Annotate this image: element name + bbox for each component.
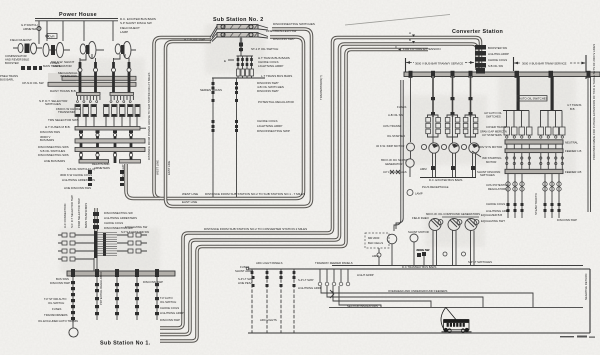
svg-text:DISCONNECTING SWITCHES: DISCONNECTING SWITCHES xyxy=(273,22,315,26)
svg-text:DISCONN SWP: DISCONN SWP xyxy=(143,280,163,284)
svg-text:DISCONNECTING SWS: DISCONNECTING SWS xyxy=(38,153,69,157)
svg-text:MAIN TRANSFMRS: MAIN TRANSFMRS xyxy=(84,203,88,228)
svg-text:S.P S.T GROUND SW: S.P S.T GROUND SW xyxy=(121,230,149,234)
svg-text:EQUALIZER B.B: EQUALIZER B.B xyxy=(481,213,502,217)
svg-text:3000 V BUS-BAR TRAMWY SERVICE: 3000 V BUS-BAR TRAMWY SERVICE xyxy=(415,61,463,65)
svg-text:DISCONN SWP: DISCONN SWP xyxy=(273,37,295,41)
svg-text:TRAMWAY FEEDER PANELS: TRAMWAY FEEDER PANELS xyxy=(315,261,353,265)
svg-text:OIL SWITCH: OIL SWITCH xyxy=(48,301,64,305)
svg-text:FIELD RHEO: FIELD RHEO xyxy=(412,216,430,220)
svg-text:REGULATORS: REGULATORS xyxy=(488,187,507,191)
svg-text:ST-1 P OIL SWITCH: ST-1 P OIL SWITCH xyxy=(251,47,278,51)
svg-text:600 K.W. OIL COMPOUND GENERATO: 600 K.W. OIL COMPOUND GENERATORS xyxy=(426,212,480,216)
svg-text:B.B: B.B xyxy=(570,107,575,111)
svg-text:EQUALIZING SW: EQUALIZING SW xyxy=(125,225,148,229)
svg-text:H.T FUSES M B.B.: H.T FUSES M B.B. xyxy=(45,125,71,129)
svg-text:S-P LT SWP: S-P LT SWP xyxy=(298,278,314,282)
svg-text:CHOKE COILS: CHOKE COILS xyxy=(104,221,123,225)
svg-text:CHOKE COILS: CHOKE COILS xyxy=(488,58,507,62)
svg-text:MAX RELAY: MAX RELAY xyxy=(121,164,125,180)
svg-text:LIGHTNING ARRP: LIGHTNING ARRP xyxy=(298,286,322,290)
svg-text:GENERATOR: GENERATOR xyxy=(385,162,402,166)
svg-text:Sub Station No 1.: Sub Station No 1. xyxy=(100,341,151,347)
svg-text:S.P SHUNT DISCH SW: S.P SHUNT DISCH SW xyxy=(120,21,152,25)
svg-text:EAST LINE: EAST LINE xyxy=(182,200,197,204)
svg-text:SWITCHES: SWITCHES xyxy=(45,102,61,106)
svg-text:LIGHTNG ARRP: LIGHTNG ARRP xyxy=(488,52,509,56)
svg-text:Converter Station: Converter Station xyxy=(452,29,503,35)
svg-text:FUSES: FUSES xyxy=(397,105,406,109)
svg-text:FIELD RHEOST: FIELD RHEOST xyxy=(10,38,32,42)
svg-text:COVER TRANS: COVER TRANS xyxy=(486,125,506,129)
svg-text:STEAM TRACTN: STEAM TRACTN xyxy=(534,193,538,215)
svg-text:D.C TRAMWAY BUS BARS: D.C TRAMWAY BUS BARS xyxy=(402,265,437,269)
svg-text:LIGHT ARRP: LIGHT ARRP xyxy=(357,273,374,277)
svg-text:TRN SELECTOR SWS: TRN SELECTOR SWS xyxy=(48,118,79,122)
svg-text:3-P STARTERS: 3-P STARTERS xyxy=(482,133,502,137)
svg-text:SHUNT MOTOR: SHUNT MOTOR xyxy=(408,230,429,234)
svg-text:WASH SW: WASH SW xyxy=(416,248,430,252)
svg-text:600V SYN MOTOR: 600V SYN MOTOR xyxy=(478,145,502,149)
svg-text:AMM: AMM xyxy=(420,167,427,171)
svg-text:SERIES TRANS: SERIES TRANS xyxy=(200,88,222,92)
svg-text:OVR: OVR xyxy=(49,35,55,39)
svg-text:BUS BARS: BUS BARS xyxy=(40,138,54,142)
svg-text:TRANSMISSION(?): TRANSMISSION(?) xyxy=(319,75,323,100)
svg-text:POTENTIAL REGULATOR: POTENTIAL REGULATOR xyxy=(99,272,103,305)
svg-text:BUS BARL: BUS BARL xyxy=(0,78,14,82)
svg-text:DAISY TRANS B.B.: DAISY TRANS B.B. xyxy=(50,89,77,93)
svg-text:DISCONN SWP: DISCONN SWP xyxy=(557,218,577,222)
svg-text:3000 K.W CHOKE COILS: 3000 K.W CHOKE COILS xyxy=(60,173,92,177)
svg-text:S.B OIL SW: S.B OIL SW xyxy=(488,64,503,68)
svg-text:LIGHTNING ARRP: LIGHTNING ARRP xyxy=(160,311,184,315)
svg-text:DISCONNECTING SWP: DISCONNECTING SWP xyxy=(257,129,290,133)
svg-text:FOR FUTURE EXTENSION: FOR FUTURE EXTENSION xyxy=(403,47,441,51)
svg-text:LIGHTNING ARRESTERS: LIGHTNING ARRESTERS xyxy=(104,216,137,220)
svg-text:EAST LINE: EAST LINE xyxy=(167,161,171,175)
svg-text:S.P. D.T SELECTOR SWP: S.P. D.T SELECTOR SWP xyxy=(70,195,74,228)
svg-text:LINE BUS BARS: LINE BUS BARS xyxy=(44,159,65,163)
svg-text:PRIM SELECTOR SWP: PRIM SELECTOR SWP xyxy=(77,198,81,228)
svg-text:LAMP: LAMP xyxy=(415,192,423,196)
svg-text:3-PH TRANSF: 3-PH TRANSF xyxy=(383,124,402,128)
svg-text:SHUNT ARRP: SHUNT ARRP xyxy=(235,269,253,273)
svg-text:D.C. EXCITER BUS BARS: D.C. EXCITER BUS BARS xyxy=(429,178,463,182)
svg-text:AMMETER: AMMETER xyxy=(23,27,37,31)
svg-text:ARC LIGHTS: ARC LIGHTS xyxy=(260,318,277,322)
svg-text:FEEDER 1.B: FEEDER 1.B xyxy=(565,149,581,153)
svg-text:DISCONN SWP: DISCONN SWP xyxy=(50,281,70,285)
svg-text:SECTION INSULATORS: SECTION INSULATORS xyxy=(347,304,378,308)
svg-text:CHOKE COILS: CHOKE COILS xyxy=(257,119,278,123)
svg-text:L.T TRANS BUS BARS: L.T TRANS BUS BARS xyxy=(261,74,292,78)
svg-text:OVERHEAD AND UNDERGROUND FEEDE: OVERHEAD AND UNDERGROUND FEEDERS xyxy=(388,289,447,293)
svg-text:DISCONNECTING SW: DISCONNECTING SW xyxy=(104,211,133,215)
svg-text:FUSES: FUSES xyxy=(52,307,61,311)
svg-text:MOTOR: MOTOR xyxy=(486,160,496,164)
svg-text:DISCONN SWP: DISCONN SWP xyxy=(160,318,180,322)
svg-text:A: A xyxy=(409,31,411,35)
svg-text:OIL SWITCH: OIL SWITCH xyxy=(160,300,176,304)
svg-text:LINE PARALLELN SW: LINE PARALLELN SW xyxy=(266,29,296,33)
svg-text:OIL EXCLUDED AUTO TRAMW: OIL EXCLUDED AUTO TRAMW xyxy=(38,319,78,323)
svg-text:EQUALIZING SWT: EQUALIZING SWT xyxy=(481,219,505,223)
svg-text:SWITCHES: SWITCHES xyxy=(486,115,501,119)
svg-text:NEUTRAL: NEUTRAL xyxy=(565,141,578,145)
svg-text:NEGATIVE RETURN: NEGATIVE RETURN xyxy=(584,274,588,300)
svg-text:32 K.W. INDP MOTOR: 32 K.W. INDP MOTOR xyxy=(376,144,404,148)
svg-text:PLUS RECEPTACLE: PLUS RECEPTACLE xyxy=(422,185,449,189)
svg-text:TRANSFMR: TRANSFMR xyxy=(58,110,75,114)
svg-text:3000 V BUS-BAR TRMW SERVICE: 3000 V BUS-BAR TRMW SERVICE xyxy=(522,62,567,66)
svg-text:DISTANCE FROM POWER HOUSE TO S: DISTANCE FROM POWER HOUSE TO SUB STATION… xyxy=(147,72,151,160)
svg-text:DISTANCE FROM SUB STATION NO.2: DISTANCE FROM SUB STATION NO.2 TO CONVER… xyxy=(204,227,307,231)
svg-text:MR 2000: MR 2000 xyxy=(368,236,380,240)
svg-text:LINE DISCONN SWS: LINE DISCONN SWS xyxy=(64,186,91,190)
svg-text:BLD CELLS: BLD CELLS xyxy=(368,241,383,245)
svg-text:BOOSTER: BOOSTER xyxy=(5,61,19,65)
svg-text:PROVISION MADE FOR FUTURE EXTE: PROVISION MADE FOR FUTURE EXTENSION OF T… xyxy=(592,44,596,160)
svg-text:POTENTIAL REGULATOR: POTENTIAL REGULATOR xyxy=(258,100,295,104)
svg-text:BOOSTER SW: BOOSTER SW xyxy=(488,46,507,50)
svg-text:FEEDER 4.B: FEEDER 4.B xyxy=(565,170,581,174)
svg-text:LINE PESA: LINE PESA xyxy=(238,281,253,285)
svg-text:OIL STARTER: OIL STARTER xyxy=(387,134,405,138)
svg-text:Power House: Power House xyxy=(59,12,97,18)
svg-text:S-P LT SWITCHES: S-P LT SWITCHES xyxy=(468,260,492,264)
svg-text:LAMP: LAMP xyxy=(120,30,128,34)
svg-text:A-C CONNECTION: A-C CONNECTION xyxy=(63,204,67,228)
svg-text:DISTANCE FROM SUB STATION NO.2: DISTANCE FROM SUB STATION NO.2 TO SUB ST… xyxy=(205,192,305,196)
svg-text:DISCONN SWP: DISCONN SWP xyxy=(257,89,279,93)
svg-text:LIGHTNING ARRP: LIGHTNING ARRP xyxy=(257,124,282,128)
svg-text:WEST LINE: WEST LINE xyxy=(156,160,160,175)
svg-text:AUTO OIL SWITCHES: AUTO OIL SWITCHES xyxy=(519,97,548,101)
svg-text:H.T FUSE SWP: H.T FUSE SWP xyxy=(184,38,205,42)
svg-text:LIGHTNING ARRP: LIGHTNING ARRP xyxy=(258,64,283,68)
svg-text:INTERLOCK: INTERLOCK xyxy=(60,74,77,78)
svg-text:Sub Station No. 2: Sub Station No. 2 xyxy=(213,17,264,23)
svg-text:AMM: AMM xyxy=(372,254,379,258)
svg-text:ARC LIGHT PANELS: ARC LIGHT PANELS xyxy=(256,261,283,265)
svg-text:DISCONN SWS: DISCONN SWS xyxy=(40,130,60,134)
svg-text:AMMETERS: AMMETERS xyxy=(94,166,110,170)
svg-text:LIGHTNING ARRP: LIGHTNING ARRP xyxy=(486,209,510,213)
svg-text:CP-N.D OIL SW: CP-N.D OIL SW xyxy=(22,81,44,85)
svg-text:B: B xyxy=(409,38,411,42)
svg-text:CHOKE COILS: CHOKE COILS xyxy=(160,306,179,310)
svg-text:FUSES: FUSES xyxy=(50,61,59,65)
svg-text:WEST LINE: WEST LINE xyxy=(182,192,198,196)
svg-text:E: E xyxy=(224,59,226,63)
svg-text:SWITCHES: SWITCHES xyxy=(480,173,495,177)
svg-text:CHOKE COILS: CHOKE COILS xyxy=(486,202,505,206)
svg-text:TRANSFORMERS: TRANSFORMERS xyxy=(44,313,68,317)
